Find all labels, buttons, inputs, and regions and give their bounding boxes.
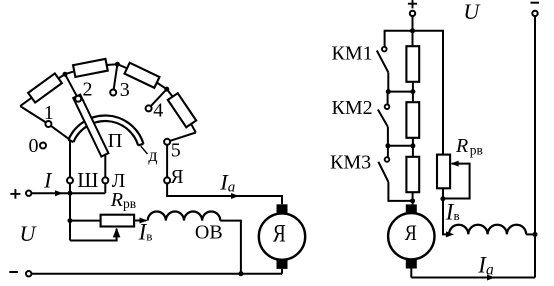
wire node3 to resistor3-4 <box>117 64 128 69</box>
wire node1 to resistor1-2 <box>20 97 33 107</box>
wire R1 to R2 <box>412 82 414 102</box>
terminal minus circle <box>26 271 31 276</box>
resistor segment 1-2 <box>28 73 62 102</box>
contact 3 <box>110 90 116 96</box>
junction KM1 bottom <box>386 89 391 94</box>
wire coil to minus line <box>526 233 535 235</box>
arrow current Ia right <box>487 275 495 281</box>
motor M2 top brush <box>406 204 417 213</box>
wire plus stem <box>412 16 414 46</box>
terminal plus circle <box>26 191 31 196</box>
wire resistor1-2 to node2 <box>57 74 65 79</box>
wire contact1 to arc cap / Sh stem <box>48 124 70 140</box>
wire L line down <box>104 183 106 193</box>
svg-text:1: 1 <box>44 102 54 124</box>
label minus left <box>9 271 17 273</box>
svg-text:Ш: Ш <box>77 168 98 192</box>
junction Rrv tap <box>440 196 445 201</box>
svg-text:4: 4 <box>153 100 163 122</box>
wire OV to bottom bus <box>220 221 241 274</box>
svg-text:U: U <box>463 0 481 24</box>
wire stub contact3 <box>113 64 117 92</box>
rheostat Rrv right <box>437 155 450 189</box>
svg-text:Я: Я <box>273 220 286 247</box>
wire KM2 junction to KM3 <box>387 146 389 157</box>
contact 0 <box>40 143 46 149</box>
wire stub contact2 <box>65 74 78 99</box>
inductor field winding right <box>449 225 526 235</box>
junction motor top node <box>410 198 415 203</box>
wire node2 to resistor2-3 <box>65 71 76 75</box>
wire KM1 down <box>387 72 389 91</box>
wire Rrv tap right <box>443 164 470 199</box>
rheostat Rrv left <box>101 215 135 227</box>
label plus left <box>10 189 20 199</box>
arrow current Iv left <box>140 218 148 224</box>
terminal plus top circle <box>410 11 415 16</box>
wire Rrv down to coil <box>443 189 449 235</box>
wire R3 to motor <box>412 192 414 204</box>
contactor KM1 fixed contact <box>382 47 387 52</box>
contactor KM3 blade <box>378 162 388 182</box>
motor M2 bottom brush <box>406 260 417 269</box>
wire minus bus <box>32 273 283 275</box>
resistor segment 4-5 <box>168 93 196 127</box>
arrow current Ia left <box>231 193 239 199</box>
junction node4 <box>164 87 169 92</box>
svg-text:Я: Я <box>405 220 417 245</box>
wire to Rrv left <box>70 220 100 222</box>
wire R2 to R3 <box>412 138 414 157</box>
wire Sh stem <box>69 140 71 178</box>
svg-text:КМ2: КМ2 <box>332 97 373 119</box>
wire stub contact5 <box>167 133 196 142</box>
svg-text:3: 3 <box>120 79 130 101</box>
svg-text:Я: Я <box>170 167 183 188</box>
wire Ya stem (contact5 to terminal Ya) <box>166 145 168 178</box>
wire Rrv tap bottom <box>70 229 117 241</box>
junction plus/Sh <box>68 191 73 196</box>
motor M1 bottom brush <box>277 260 288 269</box>
label minus top <box>531 2 540 4</box>
terminal minus top circle <box>532 11 537 16</box>
resistor segment 3-4 <box>125 63 160 88</box>
wire motor M1 to minus bus <box>281 269 283 274</box>
wire stub contact1 <box>20 106 48 124</box>
wire bottom bus right <box>411 277 535 279</box>
resistor R3 <box>406 157 419 192</box>
arrow current I <box>55 190 63 196</box>
wire resistor3-4 to node4 <box>155 82 167 90</box>
wire minus line down <box>534 16 536 277</box>
arc (segment d) of rheostat <box>68 116 143 146</box>
junction OV/minus bus <box>238 271 243 276</box>
resistor R1 <box>406 46 419 82</box>
leader line to label d <box>141 146 148 154</box>
svg-text:U: U <box>19 221 37 246</box>
wire resistor4-5 to node5 <box>190 122 196 132</box>
wiper arm P of rheostat <box>73 95 108 157</box>
resistor segment 2-3 <box>73 59 108 77</box>
contactor KM3 fixed contact <box>385 157 390 162</box>
terminal Ya circle <box>164 177 170 183</box>
arrow Rrv wiper up <box>113 228 121 238</box>
wire KM1 to R1 <box>388 91 413 93</box>
junction node2 <box>63 72 68 77</box>
junction Sh/Rrv <box>68 218 73 223</box>
wire KM1 junction to KM2 <box>387 92 389 105</box>
label plus top <box>408 0 417 8</box>
contactor KM1 blade <box>377 51 389 73</box>
resistor R2 <box>406 102 419 138</box>
wire stub contact4 <box>149 89 167 108</box>
wire plus bus <box>32 192 106 194</box>
svg-text:0: 0 <box>29 135 39 157</box>
terminal Sh circle <box>67 177 73 183</box>
wire Sh line down <box>69 183 71 240</box>
wire Ya terminal to motor (Ia wire) <box>167 183 282 204</box>
motor M2 armature circle <box>388 213 434 259</box>
wire KM2 down <box>387 127 389 146</box>
svg-text:2: 2 <box>83 78 93 100</box>
svg-text:КМ1: КМ1 <box>332 43 373 65</box>
svg-text:КМ3: КМ3 <box>330 152 371 174</box>
contactor KM2 fixed contact <box>385 104 390 109</box>
wire motor M2 down <box>410 269 412 278</box>
terminal L circle <box>102 177 108 183</box>
contact 1 <box>45 121 51 127</box>
junction R1 bottom <box>410 89 415 94</box>
wire resistor2-3 to node3 <box>105 63 118 66</box>
motor M1 top brush <box>277 204 288 213</box>
contact 5 <box>164 139 170 145</box>
arrow Rrv wiper left <box>451 161 459 167</box>
contact 2 <box>75 96 81 102</box>
junction plus/top bus <box>410 28 415 33</box>
inductor OV field winding <box>148 212 221 221</box>
junction node3 <box>115 62 120 67</box>
junction coil/minus line <box>533 232 538 237</box>
svg-text:ОВ: ОВ <box>195 222 223 244</box>
svg-text:5: 5 <box>171 140 181 162</box>
contact 4 <box>146 105 152 111</box>
junction R2 bottom <box>410 143 415 148</box>
wire pivot to terminal L <box>104 156 106 178</box>
wire top bus <box>385 31 443 155</box>
junction KM2 bottom <box>385 143 390 148</box>
wire KM2 to R2 <box>388 145 413 147</box>
svg-text:П: П <box>108 130 123 152</box>
wire node4 to resistor4-5 <box>167 89 174 98</box>
svg-text:д: д <box>148 145 157 165</box>
wire KM3 down to motor node <box>388 182 412 201</box>
arrow current Iv right <box>446 231 454 237</box>
wire Rrv output <box>135 220 146 222</box>
contactor KM2 blade <box>378 110 388 127</box>
motor M1 armature circle <box>259 213 305 259</box>
